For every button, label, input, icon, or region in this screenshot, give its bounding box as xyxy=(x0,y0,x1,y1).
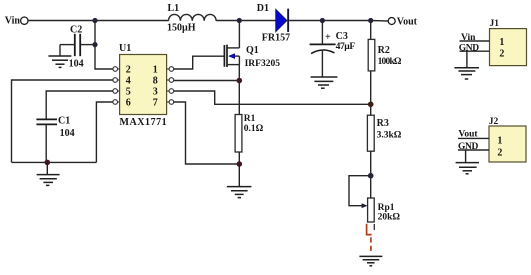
wire Q1 drain up to node DRAIN xyxy=(238,21,240,48)
diode D1 FR157 xyxy=(257,3,290,44)
svg-text:Vout: Vout xyxy=(458,129,478,139)
junction C2 tap xyxy=(92,42,97,47)
svg-text:8: 8 xyxy=(153,76,158,87)
wire node DRAIN to D1 anode xyxy=(239,20,276,22)
terminal Vout xyxy=(388,17,417,28)
svg-text:150µH: 150µH xyxy=(167,22,196,33)
potentiometer Rp1 20k xyxy=(368,198,401,222)
junction R1 ground node xyxy=(237,161,243,167)
ground at R1 xyxy=(227,164,252,198)
svg-text:FR157: FR157 xyxy=(262,33,290,44)
svg-text:Rp1: Rp1 xyxy=(378,203,395,213)
wire U1 pin 3 to feedback node xyxy=(174,91,371,104)
svg-text:U1: U1 xyxy=(119,43,131,54)
svg-text:C3: C3 xyxy=(336,31,348,42)
terminal Vin xyxy=(5,15,28,26)
svg-text:4: 4 xyxy=(126,76,131,87)
svg-text:Vin: Vin xyxy=(5,15,21,26)
svg-text:GND: GND xyxy=(458,142,478,152)
wire U1 pin 8 to node SOURCE xyxy=(174,80,240,82)
wire J1 pin 1 net Vin xyxy=(460,33,490,43)
svg-text:5: 5 xyxy=(126,87,131,98)
svg-text:7: 7 xyxy=(153,98,158,109)
capacitor C3 47uF polarized xyxy=(310,31,356,54)
svg-text:2: 2 xyxy=(499,49,504,60)
svg-text:C2: C2 xyxy=(70,25,82,36)
svg-text:R1: R1 xyxy=(244,114,256,124)
ground at C2 xyxy=(48,56,71,67)
wire U1 pin 7 to R1 ground node xyxy=(174,102,240,164)
svg-text:MAX1771: MAX1771 xyxy=(120,117,168,128)
op-amp U1 MAX1771 controller IC xyxy=(119,43,167,128)
svg-text:3.3kΩ: 3.3kΩ xyxy=(377,131,402,141)
pin 3 circle xyxy=(167,89,174,94)
capacitor C2 104 xyxy=(60,25,95,70)
wire U1 pin 1 to Q1 gate xyxy=(174,56,224,69)
svg-text:C1: C1 xyxy=(58,115,70,126)
junction node FBTOP (top of R2) xyxy=(368,18,373,23)
pin 6 circle xyxy=(113,100,120,105)
wire node SOURCE to R1 xyxy=(238,65,240,115)
svg-text:J2: J2 xyxy=(489,117,499,127)
wire node FBTOP to terminal Vout xyxy=(371,20,389,23)
svg-text:0.1Ω: 0.1Ω xyxy=(244,124,264,134)
svg-text:20kΩ: 20kΩ xyxy=(378,212,401,222)
connector J1 xyxy=(490,19,527,65)
junction node DRAIN xyxy=(237,18,242,23)
wire Rp1 to ground (red dashed) xyxy=(367,224,375,253)
wire wiper loop with arrow xyxy=(349,176,371,208)
resistor R1 0.1ohm xyxy=(235,114,264,152)
capacitor C1 104 xyxy=(36,115,74,162)
wire node C3 to node FBTOP xyxy=(322,20,370,22)
wire Vin to node VIN xyxy=(28,20,95,22)
pin 5 circle xyxy=(113,89,120,94)
svg-text:1: 1 xyxy=(497,136,502,147)
svg-text:6: 6 xyxy=(126,98,131,109)
svg-text:104: 104 xyxy=(60,128,75,139)
wire R1 bottom to ground node xyxy=(238,152,240,164)
wire ground rail xyxy=(12,161,97,163)
wire U1 pin 6 to ground rail xyxy=(96,102,112,162)
wire node C3 down to C3 plate xyxy=(321,21,323,45)
pin 4 circle xyxy=(113,78,120,83)
wire node FBTOP to R2 xyxy=(370,21,372,40)
wire node WIPER to Rp1 top xyxy=(370,176,372,198)
wire L1 to node DRAIN xyxy=(216,20,239,22)
wire feedback node to R3 xyxy=(370,104,372,115)
ground at J2 xyxy=(456,150,479,174)
svg-text:2: 2 xyxy=(497,148,502,159)
ground main (below rail) xyxy=(37,162,60,185)
svg-text:1: 1 xyxy=(153,65,158,76)
wire U1 pin 4 to ground rail xyxy=(12,80,113,162)
wire C3 to ground xyxy=(321,50,323,77)
pin 7 circle xyxy=(167,100,174,105)
junction feedback node xyxy=(368,102,374,108)
svg-text:R2: R2 xyxy=(378,45,390,56)
svg-text:1: 1 xyxy=(499,37,504,48)
junction node C3 xyxy=(320,18,325,23)
wire node VIN to L1 xyxy=(95,20,169,22)
wire R2 bottom to feedback node xyxy=(370,71,372,104)
wire D1 cathode to node C3 xyxy=(289,20,322,22)
resistor R2 100k xyxy=(368,39,402,71)
wire J2 pin 2 net GND xyxy=(458,142,489,152)
ground at Rp1 xyxy=(359,256,382,265)
svg-text:L1: L1 xyxy=(168,3,180,14)
wire J1 pin 2 net GND xyxy=(459,43,490,53)
wire R3 bottom to node WIPER xyxy=(370,151,372,176)
svg-text:IRF3205: IRF3205 xyxy=(245,59,281,69)
svg-text:Vout: Vout xyxy=(397,17,418,28)
svg-text:100kΩ: 100kΩ xyxy=(378,57,402,67)
inductor L1 150uH xyxy=(167,3,216,33)
svg-text:3: 3 xyxy=(153,87,158,98)
junction node VIN (top of C2 branch) xyxy=(92,18,97,23)
svg-text:GND: GND xyxy=(459,43,479,53)
transistor Q1 IRF3205 xyxy=(224,45,280,69)
wire node VIN down to U1 pin 2 xyxy=(95,21,113,70)
svg-text:D1: D1 xyxy=(257,3,269,14)
ground at C3 xyxy=(311,77,338,88)
wire J2 pin 1 net Vout xyxy=(458,129,489,139)
svg-text:104: 104 xyxy=(69,59,84,70)
connector J2 xyxy=(489,117,526,162)
pin 1 circle xyxy=(167,67,174,72)
svg-text:47µF: 47µF xyxy=(336,42,356,52)
resistor R3 3.3k xyxy=(367,115,401,151)
junction node SOURCE xyxy=(237,78,243,84)
junction ground rail node xyxy=(45,160,51,166)
svg-text:Vin: Vin xyxy=(461,33,476,43)
pin 8 circle xyxy=(167,78,174,83)
junction node WIPER xyxy=(368,173,374,179)
wire U1 pin 5 to C1 xyxy=(46,91,113,119)
svg-text:2: 2 xyxy=(126,65,131,76)
svg-text:+: + xyxy=(325,32,331,43)
svg-text:Q1: Q1 xyxy=(246,45,259,56)
ground at J1 xyxy=(454,51,479,79)
svg-text:J1: J1 xyxy=(490,19,500,29)
pin 2 circle xyxy=(113,67,120,72)
svg-text:R3: R3 xyxy=(377,118,389,129)
